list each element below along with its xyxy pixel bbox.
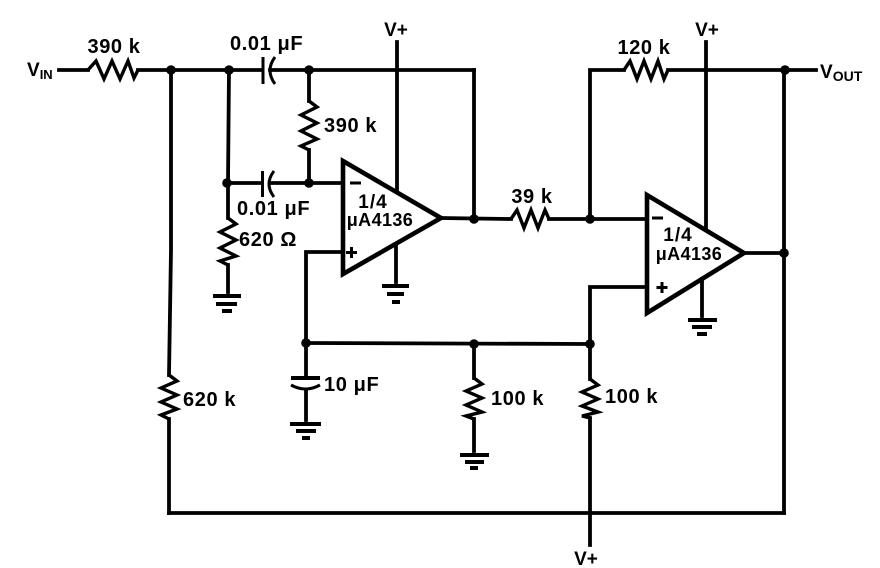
svg-text:V+: V+ bbox=[384, 20, 408, 41]
svg-text:100 k: 100 k bbox=[491, 388, 544, 410]
svg-text:V+: V+ bbox=[574, 549, 598, 568]
svg-text:390 k: 390 k bbox=[324, 115, 377, 137]
svg-text:39 k: 39 k bbox=[511, 186, 553, 208]
svg-text:390 k: 390 k bbox=[87, 36, 140, 58]
svg-text:0.01 μF: 0.01 μF bbox=[237, 198, 310, 220]
svg-text:620 Ω: 620 Ω bbox=[239, 229, 297, 251]
svg-text:μA4136: μA4136 bbox=[347, 210, 413, 230]
svg-text:100 k: 100 k bbox=[605, 386, 658, 408]
svg-text:0.01 μF: 0.01 μF bbox=[230, 33, 303, 55]
svg-text:620 k: 620 k bbox=[183, 389, 236, 411]
svg-text:10 μF: 10 μF bbox=[324, 374, 379, 396]
svg-text:1/4: 1/4 bbox=[663, 225, 692, 246]
svg-text:V+: V+ bbox=[695, 20, 719, 41]
svg-text:120 k: 120 k bbox=[617, 37, 670, 59]
svg-text:μA4136: μA4136 bbox=[656, 244, 722, 264]
